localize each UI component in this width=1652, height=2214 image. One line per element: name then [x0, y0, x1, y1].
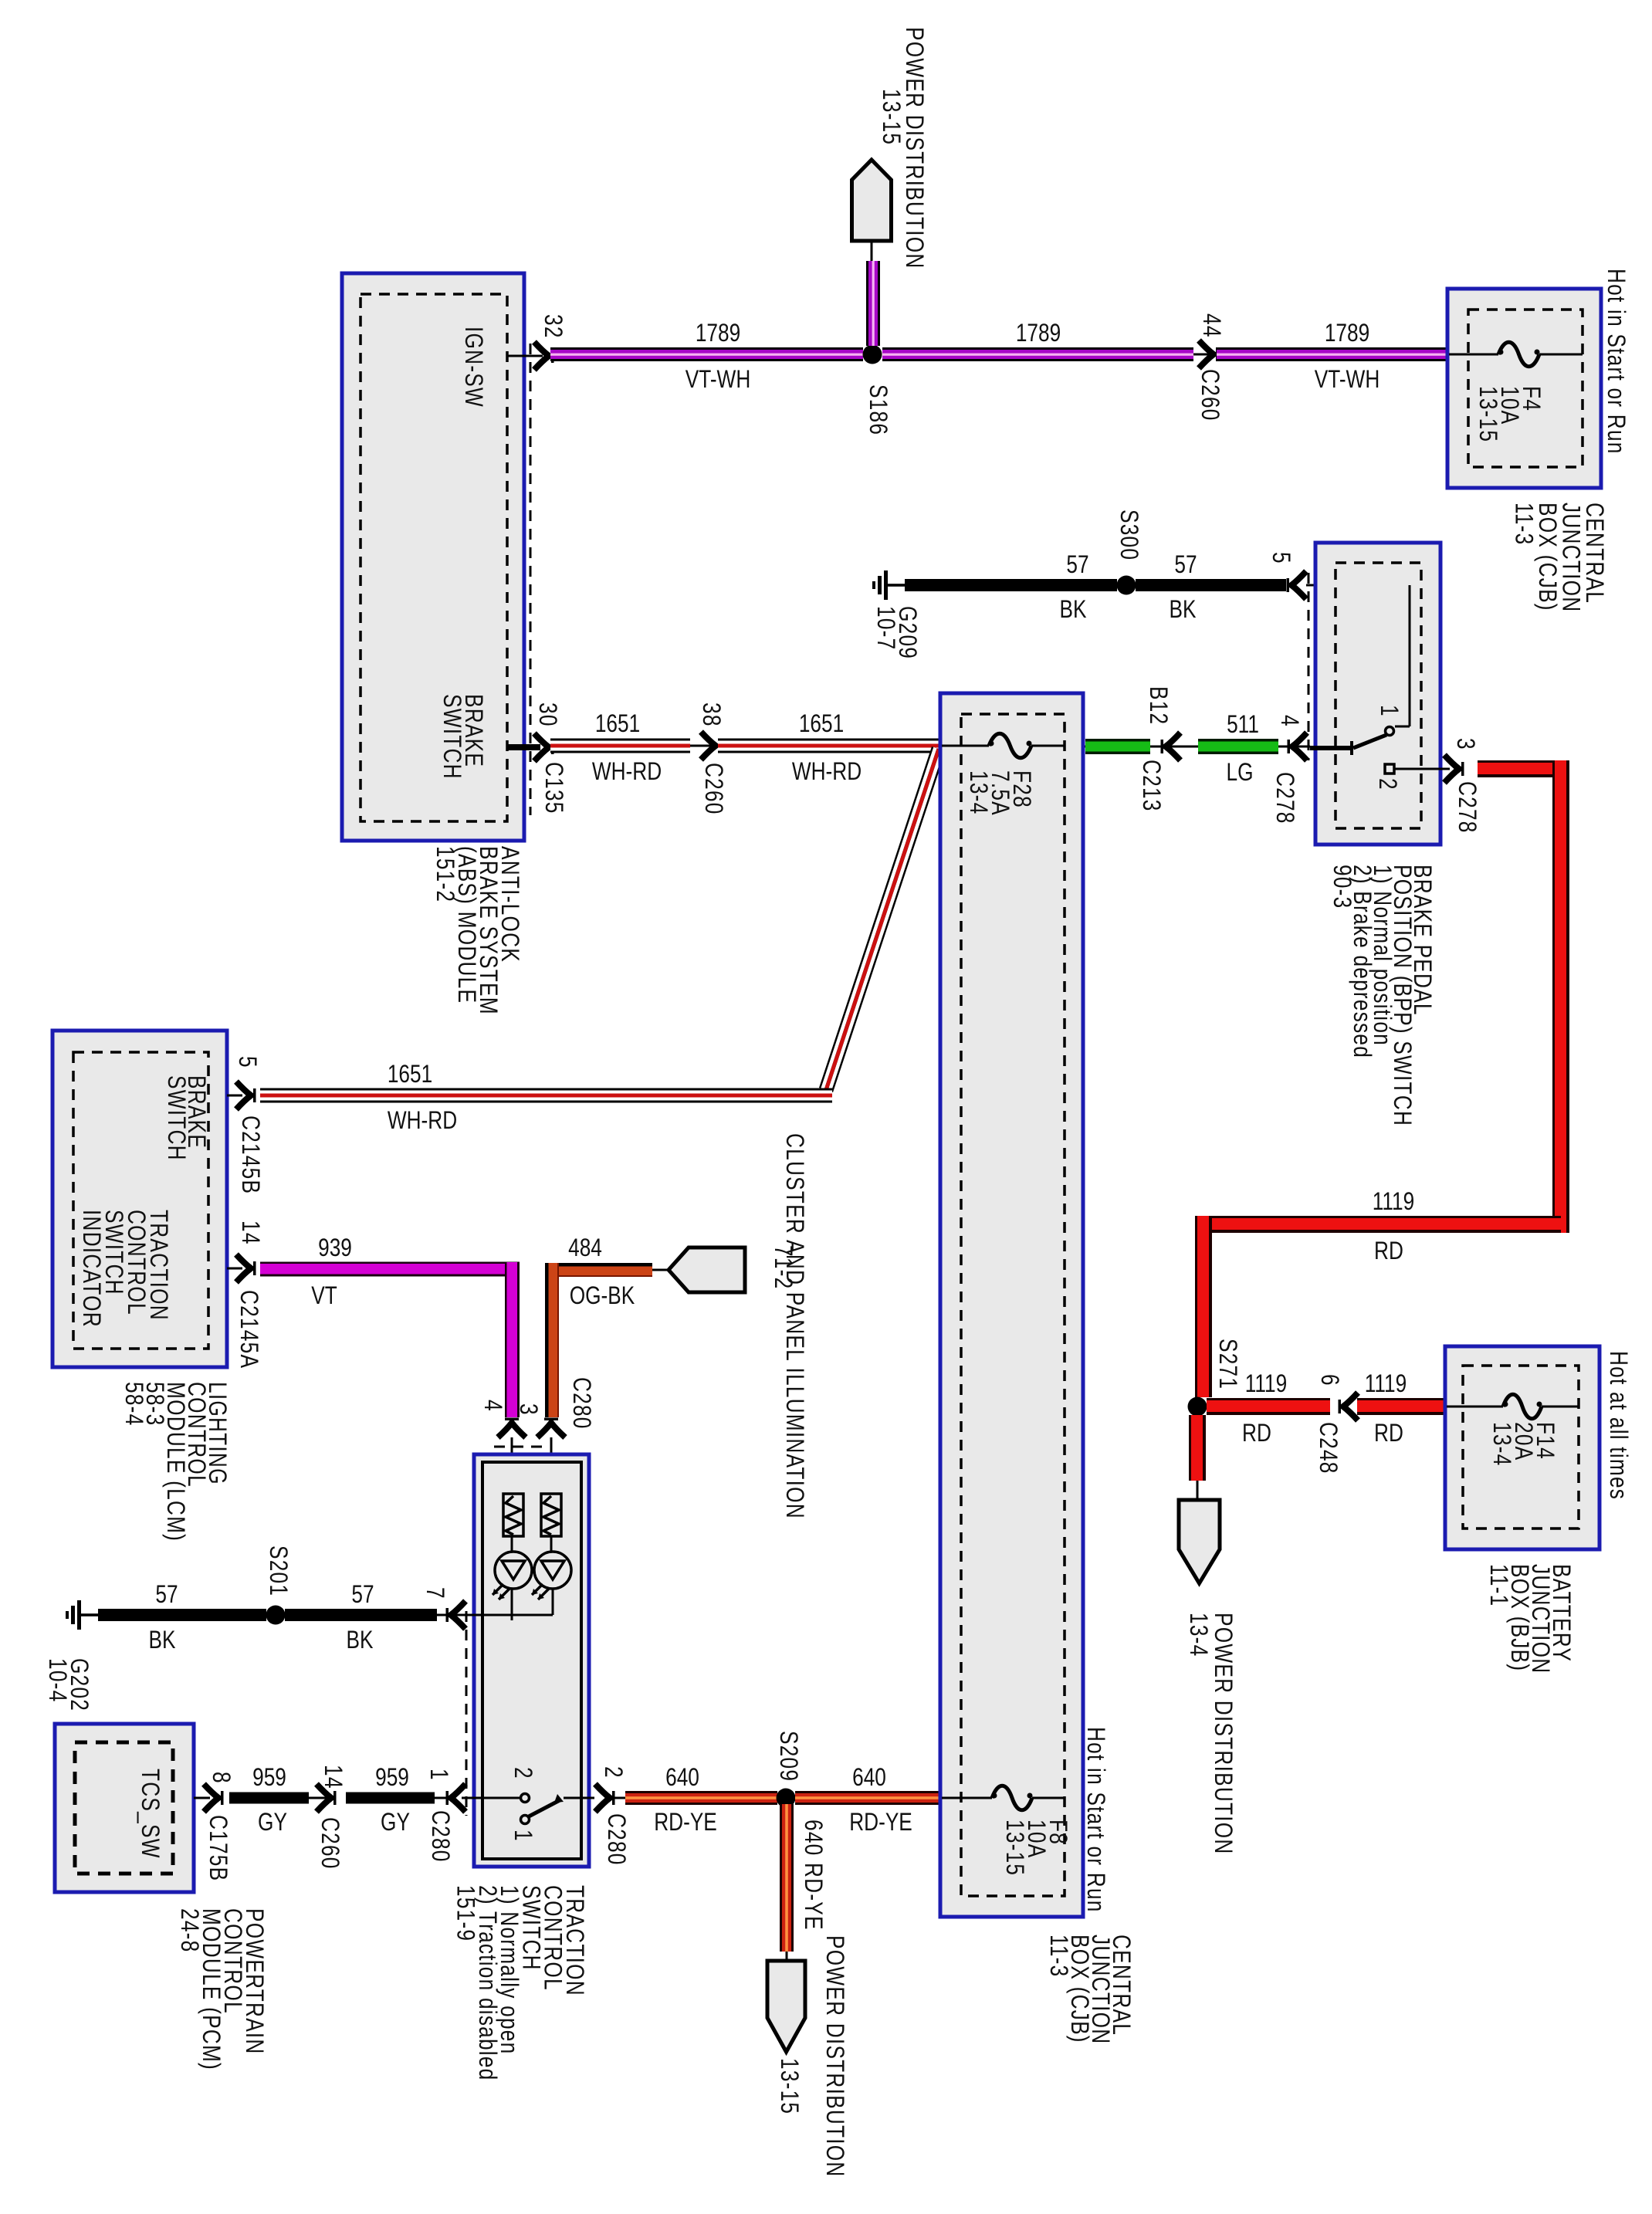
svg-text:POWER DISTRIBUTION: POWER DISTRIBUTION: [900, 27, 927, 269]
BPP switch contact 1: [1386, 727, 1394, 736]
svg-text:S271: S271: [1214, 1339, 1241, 1390]
box: BATTERY JUNCTION BOX (BJB) with fuse F14: [1445, 1346, 1600, 1549]
power distribution arrow (bottom): [786, 1952, 788, 1963]
lamp common wire to pin 7: [511, 1589, 513, 1615]
wire 1789 VT-WH segment 2: [882, 347, 1193, 361]
wire 484 OG-BK vertical: [545, 1263, 559, 1417]
svg-text:1: 1: [1375, 705, 1402, 717]
box: ANTI-LOCK BRAKE SYSTEM (ABS) MODULE: [342, 273, 524, 841]
fuse F8 10A: [942, 1797, 992, 1799]
BPP switch contact 2: [1385, 764, 1394, 774]
pin 3 / C278: [1444, 755, 1459, 783]
connector dashed line C278: [1308, 573, 1310, 760]
svg-text:151-9: 151-9: [452, 1885, 479, 1941]
wire 1651 WH-RD diagonal branch: [826, 749, 939, 1090]
svg-text:INDICATOR: INDICATOR: [77, 1210, 104, 1328]
svg-text:RD: RD: [1374, 1420, 1403, 1447]
connector C260 pin 14 arrow: [309, 1797, 333, 1799]
svg-text:640: 640: [852, 1765, 886, 1792]
box: TRACTION CONTROL SWITCH: [474, 1454, 589, 1867]
ground G209: [884, 570, 888, 600]
wire 1651 WH-RD segment 2: [718, 739, 940, 753]
box: LIGHTING CONTROL MODULE (LCM): [52, 1031, 227, 1367]
wire 959 GY segment 2: [346, 1793, 435, 1804]
svg-text:C2145B: C2145B: [236, 1115, 263, 1194]
connector C260 pin 44: [1193, 354, 1217, 356]
svg-text:C260: C260: [699, 763, 726, 815]
svg-text:C175B: C175B: [204, 1815, 231, 1881]
svg-text:24-8: 24-8: [175, 1908, 202, 1952]
pin 7 arrow: [451, 1601, 465, 1629]
svg-text:WH-RD: WH-RD: [388, 1108, 457, 1135]
splice S209: [777, 1789, 796, 1808]
box: POWERTRAIN CONTROL MODULE (PCM): [55, 1724, 194, 1892]
svg-text:RD: RD: [1374, 1238, 1403, 1265]
svg-text:1119: 1119: [1373, 1189, 1414, 1216]
svg-text:484: 484: [568, 1235, 602, 1262]
C280 connector dashes at pins 4/3: [494, 1446, 545, 1448]
svg-text:14: 14: [319, 1765, 346, 1789]
wire 57 BK segment to S300: [905, 579, 1117, 591]
svg-text:GY: GY: [258, 1809, 287, 1837]
BPP switch internal wire from pin 5: [1409, 585, 1411, 726]
svg-text:939: 939: [318, 1235, 352, 1262]
svg-text:6: 6: [1315, 1374, 1342, 1386]
connector dashed line C135: [530, 344, 532, 815]
svg-text:57: 57: [1174, 552, 1197, 579]
svg-text:Hot in Start or Run: Hot in Start or Run: [1082, 1727, 1109, 1913]
ground G202: [77, 1600, 81, 1630]
wire 1119 RD horizontal run: [1195, 1216, 1561, 1233]
svg-text:S201: S201: [264, 1545, 291, 1596]
svg-text:RD-YE: RD-YE: [654, 1809, 717, 1837]
svg-text:10-7: 10-7: [872, 606, 899, 650]
svg-text:VT: VT: [311, 1283, 337, 1310]
svg-text:14: 14: [236, 1220, 263, 1245]
svg-text:Hot at all times: Hot at all times: [1604, 1351, 1631, 1500]
connector C213 arrow: [1166, 733, 1180, 760]
svg-text:13-15: 13-15: [1000, 1820, 1027, 1876]
svg-text:BK: BK: [346, 1627, 373, 1654]
svg-text:GY: GY: [381, 1809, 410, 1837]
svg-text:C260: C260: [316, 1817, 343, 1870]
connector C260 pin 38: [690, 745, 718, 747]
svg-text:1651: 1651: [799, 711, 844, 738]
pin 2 / C280 arrow (right): [595, 1784, 610, 1812]
pin 4 / C278 arrow: [1292, 733, 1307, 760]
resistor (left lamp): [503, 1494, 523, 1536]
svg-text:POWER DISTRIBUTION: POWER DISTRIBUTION: [1209, 1613, 1236, 1855]
wire 939 VT vertical: [505, 1262, 520, 1417]
cluster illumination arrow: [652, 1269, 673, 1271]
svg-text:1: 1: [509, 1830, 536, 1842]
svg-text:C248: C248: [1314, 1422, 1341, 1474]
splice S271: [1188, 1397, 1207, 1417]
svg-text:57: 57: [1066, 552, 1088, 579]
svg-text:7: 7: [421, 1587, 448, 1600]
indicator lamp right: [550, 1536, 553, 1552]
svg-text:1789: 1789: [696, 320, 740, 347]
svg-text:5: 5: [233, 1056, 260, 1068]
pin 30 / C135 of ABS module: [507, 744, 540, 750]
svg-text:4: 4: [1275, 715, 1302, 727]
svg-text:VT-WH: VT-WH: [686, 367, 751, 394]
svg-text:640 RD-YE: 640 RD-YE: [799, 1820, 826, 1931]
power distribution arrow (right, 13-4): [1179, 1500, 1220, 1583]
splice S300: [1117, 576, 1136, 595]
svg-text:13-4: 13-4: [964, 770, 991, 814]
wire 1651 WH-RD long horizontal to LCM: [260, 1088, 832, 1103]
svg-text:58-4: 58-4: [120, 1382, 147, 1426]
svg-text:30: 30: [533, 702, 560, 727]
svg-text:57: 57: [155, 1582, 178, 1609]
box: CENTRAL JUNCTION BOX (CJB) tall, fuses F28 and F8: [940, 693, 1083, 1917]
wire 1119 RD from pin 3 of BPP: [1478, 760, 1569, 777]
pin 4 / C280 arrow (switch lamp feed): [498, 1423, 526, 1437]
splice S201: [266, 1606, 286, 1625]
svg-text:13-15: 13-15: [775, 2058, 802, 2114]
svg-text:IGN-SW: IGN-SW: [459, 327, 486, 408]
svg-text:SWITCH: SWITCH: [162, 1075, 189, 1161]
svg-text:BK: BK: [148, 1627, 175, 1654]
svg-text:VT-WH: VT-WH: [1315, 367, 1380, 394]
svg-text:1789: 1789: [1325, 320, 1369, 347]
svg-text:TCS_SW: TCS_SW: [136, 1769, 163, 1859]
svg-text:13-15: 13-15: [877, 89, 904, 145]
pin 1 / C280 arrow: [435, 1797, 446, 1799]
svg-text:C213: C213: [1137, 760, 1164, 812]
svg-text:1651: 1651: [595, 711, 640, 738]
svg-text:11-1: 11-1: [1484, 1564, 1512, 1606]
wire 57 BK segment 2: [285, 1609, 437, 1621]
BPP contact 2 wire to pin 3: [1394, 768, 1450, 770]
svg-text:S186: S186: [864, 384, 891, 435]
svg-text:1651: 1651: [388, 1061, 432, 1088]
connector C248 pin 6 arrow: [1343, 1393, 1358, 1420]
svg-text:LG: LG: [1226, 760, 1253, 787]
wire 511 LG segment B12 side: [1084, 746, 1310, 748]
svg-text:10-4: 10-4: [43, 1658, 70, 1702]
box: CENTRAL JUNCTION BOX (CJB) with fuse F4: [1447, 289, 1601, 488]
svg-text:640: 640: [665, 1765, 699, 1792]
svg-text:959: 959: [252, 1765, 286, 1792]
wire 1789 VT-WH segment 1: [550, 347, 863, 361]
wire 640 RD-YE segment 2: [795, 1791, 940, 1805]
svg-text:90-3: 90-3: [1328, 865, 1355, 909]
svg-text:511: 511: [1227, 712, 1259, 739]
svg-text:C260: C260: [1196, 369, 1223, 421]
svg-text:1119: 1119: [1365, 1371, 1407, 1398]
resistor (right lamp): [541, 1494, 561, 1536]
svg-text:11-3: 11-3: [1044, 1935, 1071, 1977]
svg-text:B12: B12: [1144, 686, 1171, 725]
traction control switch blade: [529, 1799, 561, 1816]
svg-text:13-4: 13-4: [1488, 1422, 1515, 1466]
svg-text:3: 3: [1451, 738, 1478, 750]
wire 484 OG-BK horizontal: [552, 1263, 652, 1277]
svg-text:959: 959: [375, 1765, 409, 1792]
svg-text:3: 3: [514, 1403, 541, 1416]
pin 8 / C175B: [194, 1797, 210, 1799]
svg-text:38: 38: [697, 702, 724, 727]
svg-text:C280: C280: [567, 1377, 594, 1430]
wire 57 BK segment to S201: [98, 1609, 266, 1621]
svg-text:5: 5: [1267, 552, 1294, 564]
svg-text:POWER DISTRIBUTION: POWER DISTRIBUTION: [821, 1935, 848, 2178]
svg-text:13-15: 13-15: [1474, 386, 1501, 442]
svg-text:11-3: 11-3: [1510, 503, 1537, 545]
pin 32 of ABS module: [507, 355, 543, 357]
wire 1119 RD vertical to power distribution (13-4): [1189, 1415, 1206, 1481]
pin 3 / C280 arrow (illumination): [537, 1423, 565, 1437]
svg-text:C280: C280: [426, 1810, 453, 1863]
svg-text:RD-YE: RD-YE: [849, 1809, 912, 1837]
svg-text:WH-RD: WH-RD: [792, 759, 862, 786]
BPP pin 4 stub: [1310, 746, 1353, 750]
traction control switch contact 2: [521, 1794, 530, 1803]
wire 57 BK segment 2: [1136, 579, 1286, 591]
svg-text:8: 8: [207, 1772, 234, 1784]
pin 5 of BPP switch: [1291, 571, 1306, 599]
svg-text:2: 2: [599, 1766, 626, 1779]
wire 640 RD-YE vertical from S209: [780, 1804, 794, 1952]
pin 5 / C2145B: [227, 1095, 242, 1097]
svg-text:WH-RD: WH-RD: [592, 759, 662, 786]
svg-text:4: 4: [479, 1400, 506, 1412]
fuse F14 20A: [1447, 1406, 1503, 1408]
wire 1651 WH-RD segment 1: [550, 739, 690, 753]
svg-text:1789: 1789: [1016, 320, 1061, 347]
wire 1789 VT-WH vertical to power distribution: [866, 261, 880, 346]
svg-text:C278: C278: [1271, 772, 1298, 824]
svg-text:32: 32: [539, 314, 566, 339]
C280 connector dashed line (vertical): [465, 1611, 468, 1816]
svg-text:2: 2: [1373, 778, 1400, 790]
wire 640 RD-YE segment 1: [610, 1797, 627, 1799]
fuse F4 10A: [1449, 354, 1498, 356]
svg-text:OG-BK: OG-BK: [570, 1283, 635, 1310]
wire 511 LG segment 2: [1198, 739, 1278, 754]
svg-text:1: 1: [425, 1769, 452, 1781]
svg-text:Hot in Start or Run: Hot in Start or Run: [1602, 269, 1629, 455]
svg-text:CLUSTER AND PANEL ILLUMINATION: CLUSTER AND PANEL ILLUMINATION: [780, 1133, 807, 1519]
svg-text:C280: C280: [602, 1813, 629, 1866]
svg-text:RD: RD: [1242, 1420, 1271, 1447]
fuse F28 7.5A: [942, 745, 989, 747]
traction control switch contact 1: [521, 1816, 530, 1824]
wire 959 GY segment 1: [229, 1793, 309, 1804]
svg-text:13-4: 13-4: [1184, 1613, 1211, 1657]
svg-text:1119: 1119: [1245, 1371, 1287, 1398]
box: BRAKE PEDAL POSITION (BPP) SWITCH: [1315, 543, 1440, 845]
switch wire to pin 2: [564, 1797, 594, 1799]
svg-text:SWITCH: SWITCH: [438, 694, 465, 780]
wire 1119 RD vertical to S271: [1195, 1216, 1212, 1397]
svg-text:57: 57: [351, 1582, 374, 1609]
svg-text:S209: S209: [774, 1731, 801, 1782]
indicator lamp left: [511, 1536, 513, 1552]
svg-text:151-2: 151-2: [431, 846, 458, 902]
BPP switch blade: [1353, 735, 1386, 748]
wire 1119 RD segment to BJB: [1357, 1398, 1445, 1415]
wire 1119 RD from S271 to C248: [1207, 1398, 1330, 1415]
svg-text:S300: S300: [1115, 509, 1142, 560]
power distribution arrow (top): [852, 160, 892, 241]
svg-text:C135: C135: [540, 762, 567, 814]
svg-text:BK: BK: [1059, 597, 1086, 624]
svg-text:2: 2: [509, 1767, 536, 1779]
wire 939 VT horizontal: [260, 1262, 520, 1277]
svg-text:44: 44: [1197, 313, 1224, 338]
pin 14 / C2145A: [227, 1268, 242, 1270]
splice S186: [863, 345, 882, 364]
svg-text:BK: BK: [1169, 597, 1196, 624]
svg-text:C2145A: C2145A: [235, 1290, 262, 1369]
svg-text:C278: C278: [1453, 781, 1480, 834]
wire 1789 VT-WH segment 3: [1217, 347, 1447, 361]
